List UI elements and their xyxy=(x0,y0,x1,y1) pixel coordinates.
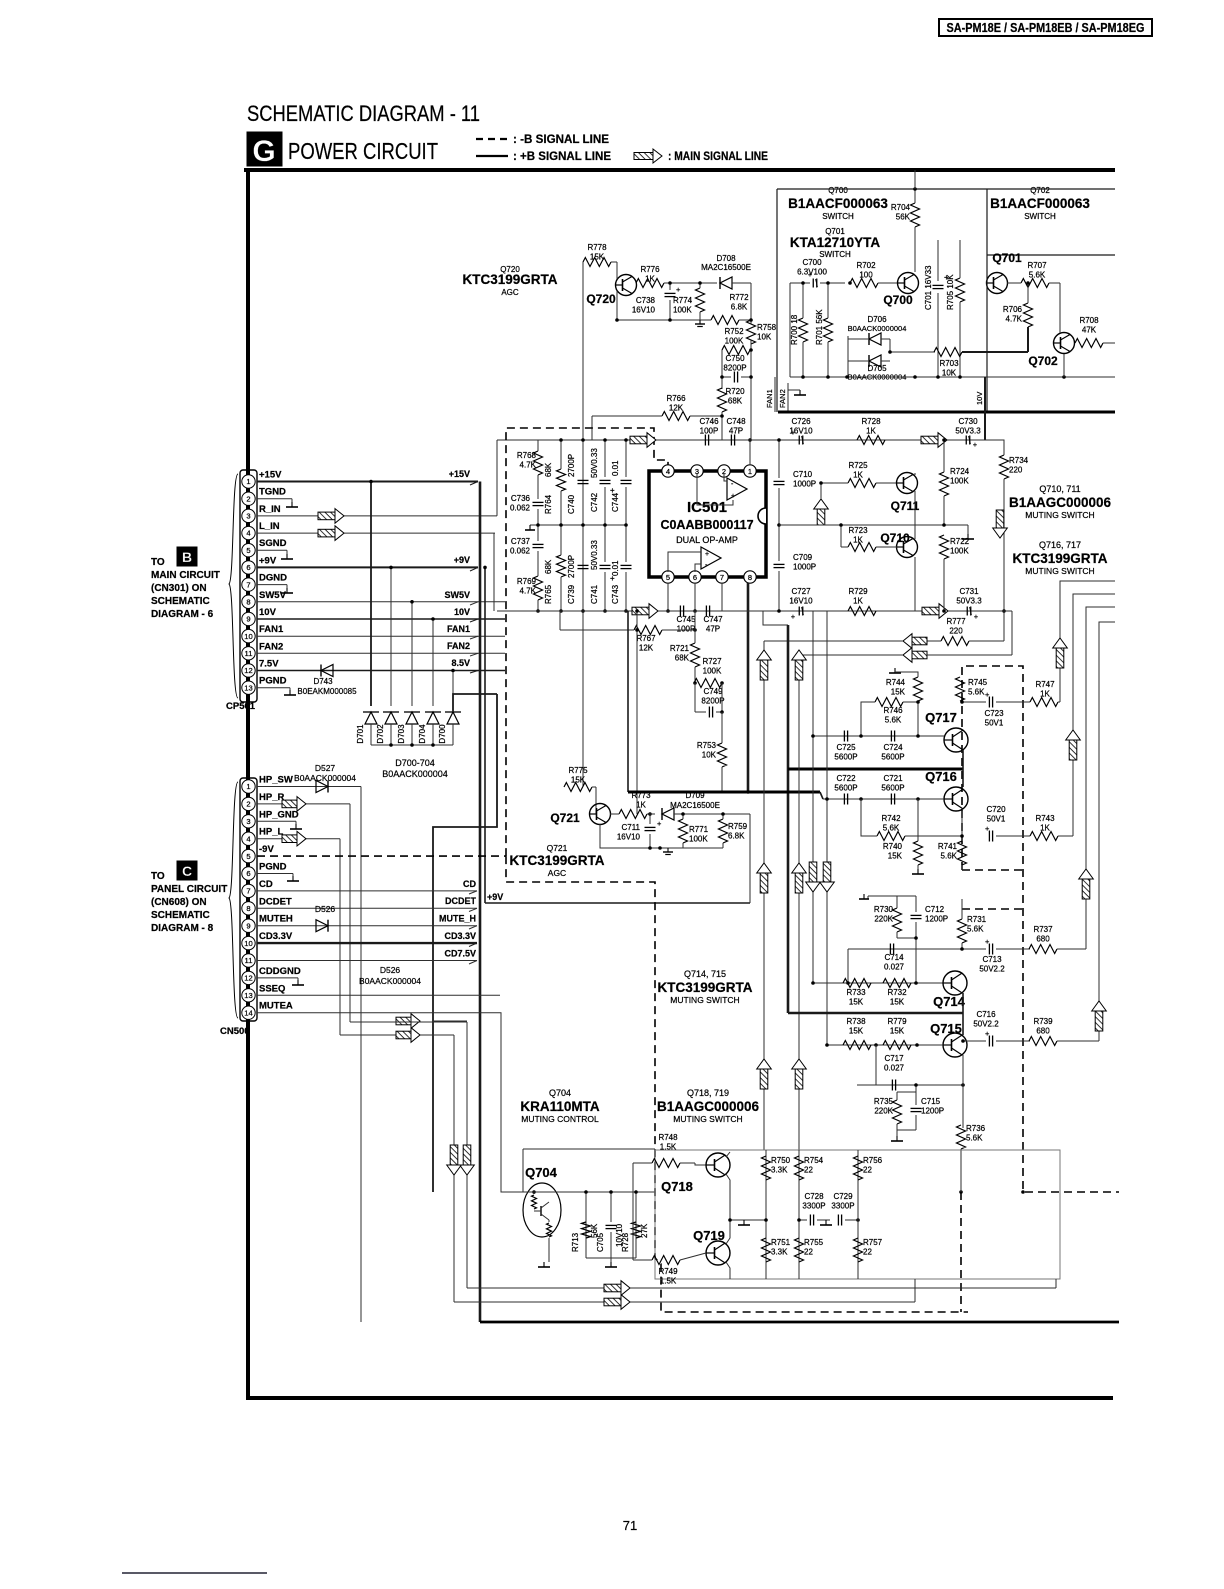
muting switch Q714 Q715 xyxy=(657,894,1099,1192)
down arrow on x=827 xyxy=(823,862,831,882)
svg-text:Q702: Q702 xyxy=(1028,354,1058,368)
transistor Q700 xyxy=(898,273,919,294)
IC501 pin 2 xyxy=(718,465,730,477)
svg-text:D702: D702 xyxy=(376,724,385,744)
svg-text:C721: C721 xyxy=(883,774,903,783)
Q715 collector xyxy=(962,1013,964,1035)
connector CN500 xyxy=(220,775,301,1038)
svg-text:FAN2: FAN2 xyxy=(259,641,283,652)
svg-text:Q710: Q710 xyxy=(880,531,910,545)
svg-text:B0AACK000004: B0AACK000004 xyxy=(382,769,448,779)
svg-text:R732: R732 xyxy=(887,988,907,997)
svg-text:11: 11 xyxy=(245,649,253,658)
svg-text:C744: C744 xyxy=(611,492,620,512)
wire CDDGND to ground xyxy=(257,977,298,979)
IC501 pin 7 xyxy=(716,571,728,583)
svg-text:1: 1 xyxy=(246,477,250,486)
wire DGND to ground xyxy=(257,584,287,586)
svg-text:+9V: +9V xyxy=(454,555,470,565)
svg-text:SCHEMATIC DIAGRAM - 11: SCHEMATIC DIAGRAM - 11 xyxy=(247,101,480,126)
svg-text:Q721: Q721 xyxy=(547,843,568,853)
svg-text:R752: R752 xyxy=(724,327,744,336)
transistor Q710 xyxy=(897,537,918,558)
up arrow on exit 2 xyxy=(1069,740,1077,760)
svg-text:+9V: +9V xyxy=(259,555,277,566)
svg-text:C745: C745 xyxy=(676,615,696,624)
svg-text:: -B SIGNAL LINE: : -B SIGNAL LINE xyxy=(513,134,609,146)
svg-text:1200P: 1200P xyxy=(925,915,948,924)
svg-text:R744: R744 xyxy=(886,678,906,687)
svg-text:SCHEMATIC: SCHEMATIC xyxy=(151,910,210,921)
svg-text:C713: C713 xyxy=(982,955,1002,964)
svg-text:10V: 10V xyxy=(259,607,277,618)
svg-text:SWITCH: SWITCH xyxy=(822,212,854,221)
svg-text:R736: R736 xyxy=(966,1124,986,1133)
muting section Q710 Q711 xyxy=(764,417,1112,662)
+9V bus vertical xyxy=(484,567,486,903)
svg-text:3.3K: 3.3K xyxy=(771,1248,788,1257)
HP wire elbow 2 xyxy=(340,1034,454,1036)
Q717 base wire with C725 C724 xyxy=(813,735,944,737)
svg-text:R751: R751 xyxy=(771,1238,791,1247)
input filter bank xyxy=(494,438,649,613)
legend main signal line arrow xyxy=(634,153,653,160)
svg-text:R748: R748 xyxy=(658,1133,678,1142)
svg-text:KTC3199GRTA: KTC3199GRTA xyxy=(462,272,557,287)
svg-text:6: 6 xyxy=(246,563,250,572)
svg-text:+9V: +9V xyxy=(487,892,503,902)
Q704 emitter ground xyxy=(548,1238,550,1262)
capacitor C717 0.027 xyxy=(857,1084,962,1086)
svg-text:1K: 1K xyxy=(853,471,863,480)
signal bus x=799 xyxy=(798,655,800,1150)
svg-text:50V3.3: 50V3.3 xyxy=(956,597,982,606)
svg-text:DUAL OP-AMP: DUAL OP-AMP xyxy=(676,535,738,545)
svg-text:R765: R765 xyxy=(544,584,553,604)
svg-text:5: 5 xyxy=(246,852,250,861)
bus x=827 to Q716 base xyxy=(826,611,828,1045)
CP501 pin 9 10V xyxy=(242,612,255,625)
diode bank anode join wire xyxy=(371,744,453,746)
svg-text:Q717: Q717 xyxy=(925,710,957,725)
svg-text:12K: 12K xyxy=(639,644,654,653)
svg-text:C716: C716 xyxy=(976,1010,996,1019)
svg-text:100P: 100P xyxy=(700,427,719,436)
svg-text:AGC: AGC xyxy=(548,868,566,878)
arrow on wire 1 xyxy=(396,1017,411,1025)
svg-text:R702: R702 xyxy=(856,261,876,270)
svg-text:15K: 15K xyxy=(571,776,586,785)
svg-text:R757: R757 xyxy=(863,1238,883,1247)
svg-text:47K: 47K xyxy=(1082,326,1097,335)
ground HP_GND xyxy=(295,824,297,829)
svg-text:1200P: 1200P xyxy=(921,1107,944,1116)
op-amp A triangle xyxy=(727,478,747,500)
schematic frame border xyxy=(244,168,1115,172)
svg-text:0.01: 0.01 xyxy=(611,560,620,576)
resistor R749 1.5K xyxy=(652,1256,680,1265)
wire HP_L with signal arrow xyxy=(257,838,340,840)
transistor Q720 xyxy=(616,275,637,296)
svg-text:HP_L: HP_L xyxy=(259,827,283,838)
svg-text:Q700: Q700 xyxy=(828,186,848,195)
svg-text:15K: 15K xyxy=(888,852,903,861)
svg-text:8: 8 xyxy=(748,573,752,582)
wire MUTEH with diode D526 xyxy=(257,925,477,927)
svg-text:71: 71 xyxy=(623,1518,637,1533)
svg-text:220: 220 xyxy=(949,627,963,636)
svg-text:R741: R741 xyxy=(938,842,958,851)
svg-text:1: 1 xyxy=(748,467,752,476)
L_IN entry dropper xyxy=(493,533,495,611)
svg-text:C714: C714 xyxy=(884,953,904,962)
svg-text:R723: R723 xyxy=(848,526,868,535)
legend +B signal line xyxy=(476,155,508,157)
svg-text:1.5K: 1.5K xyxy=(660,1277,677,1286)
svg-text:DCDET: DCDET xyxy=(259,896,292,907)
muting control Q704 xyxy=(520,1088,759,1267)
CP501 pin 12 7.5V xyxy=(242,664,255,677)
svg-text:5.6K: 5.6K xyxy=(885,716,902,725)
CP501 pin 13 PGND xyxy=(242,681,255,694)
svg-text:C741: C741 xyxy=(590,584,599,604)
svg-text:2700P: 2700P xyxy=(567,555,576,578)
Q718 emitter down xyxy=(726,1174,730,1220)
svg-text:1K: 1K xyxy=(866,427,876,436)
resistor R755 22 xyxy=(795,1238,804,1262)
svg-text:50V1: 50V1 xyxy=(985,719,1004,728)
mid rail xyxy=(530,524,626,526)
svg-text:R771: R771 xyxy=(689,825,709,834)
IC501 pin 6 xyxy=(689,571,701,583)
svg-text:100K: 100K xyxy=(673,306,692,315)
svg-text:R728: R728 xyxy=(621,1232,630,1252)
svg-text:+: + xyxy=(985,824,990,833)
svg-text:12: 12 xyxy=(244,666,252,675)
diode D527 xyxy=(316,781,328,793)
transistor Q718 xyxy=(706,1153,730,1177)
digital transistor Q704 xyxy=(523,1183,561,1237)
svg-text:5600P: 5600P xyxy=(834,784,857,793)
wire -9V dashed (-B line) xyxy=(257,855,506,857)
svg-text:680: 680 xyxy=(1036,935,1050,944)
svg-text:R766: R766 xyxy=(666,394,686,403)
svg-text:22: 22 xyxy=(804,1248,813,1257)
wire PGND to ground xyxy=(257,687,290,689)
svg-text:B0AACK0000004: B0AACK0000004 xyxy=(848,324,907,333)
svg-text:R746: R746 xyxy=(883,706,903,715)
svg-text:56K: 56K xyxy=(896,213,911,222)
svg-text:R713: R713 xyxy=(571,1232,580,1252)
svg-text:+: + xyxy=(973,440,978,449)
svg-text:PGND: PGND xyxy=(259,676,287,687)
svg-text:R753: R753 xyxy=(697,741,717,750)
svg-text:R700 18: R700 18 xyxy=(790,314,799,345)
long bottom wire 1 xyxy=(467,1287,1056,1289)
svg-text:C738: C738 xyxy=(636,296,656,305)
svg-text:7.5V: 7.5V xyxy=(259,658,279,669)
svg-text:13: 13 xyxy=(244,683,252,692)
svg-text:12: 12 xyxy=(244,974,252,983)
svg-text:Q701: Q701 xyxy=(992,251,1022,265)
ground on emitter rail xyxy=(667,848,669,852)
svg-text:4: 4 xyxy=(666,467,670,476)
svg-text:6: 6 xyxy=(246,869,250,878)
svg-text:6.8K: 6.8K xyxy=(731,303,748,312)
long bottom wire 2 xyxy=(454,1301,915,1303)
svg-text:10K: 10K xyxy=(757,333,772,342)
wire +9V xyxy=(257,566,478,568)
svg-text:MUTING SWITCH: MUTING SWITCH xyxy=(670,995,739,1005)
svg-text:8.5V: 8.5V xyxy=(451,658,470,668)
svg-text:B1AACF000063: B1AACF000063 xyxy=(788,196,888,211)
resistor R732 15K xyxy=(883,979,911,988)
wire FAN1 xyxy=(257,635,505,637)
svg-text:R745: R745 xyxy=(968,678,988,687)
svg-text:R747: R747 xyxy=(1035,680,1055,689)
svg-text:R735: R735 xyxy=(874,1097,894,1106)
transistor Q716 xyxy=(944,787,968,811)
exit line 1 to R747 xyxy=(1060,581,1115,702)
svg-text:1K: 1K xyxy=(636,801,646,810)
resistor R757 22 xyxy=(854,1238,863,1262)
svg-text:+: + xyxy=(657,819,662,828)
svg-text:1: 1 xyxy=(246,782,250,791)
svg-text:MUTING SWITCH: MUTING SWITCH xyxy=(673,1114,742,1124)
transistor Q702 xyxy=(1054,333,1075,354)
resistor R756 22 xyxy=(857,1150,859,1279)
AGC feedback vertical xyxy=(636,611,638,814)
CN500 pin 8 DCDET xyxy=(242,902,255,915)
svg-text:SSEQ: SSEQ xyxy=(259,983,285,994)
svg-text:B0AACK000004: B0AACK000004 xyxy=(359,976,421,986)
resistor R754 22 xyxy=(798,1150,800,1279)
svg-text:KTA12710YTA: KTA12710YTA xyxy=(790,235,881,250)
Q704 internal resistor 2 xyxy=(547,1223,552,1237)
arrow on y=611 xyxy=(922,607,939,615)
svg-text:G: G xyxy=(252,135,275,168)
svg-text:R730: R730 xyxy=(874,905,894,914)
svg-text:C715: C715 xyxy=(921,1097,941,1106)
svg-text:R706: R706 xyxy=(1003,305,1023,314)
Q715 base wire R738 R779 xyxy=(827,1044,943,1046)
svg-text:SGND: SGND xyxy=(259,538,287,549)
svg-text:680: 680 xyxy=(1036,1027,1050,1036)
svg-text:100K: 100K xyxy=(725,337,744,346)
svg-text:5.6K: 5.6K xyxy=(968,688,985,697)
svg-text:B1AACF000063: B1AACF000063 xyxy=(990,196,1090,211)
CP501 pin 3 R_IN xyxy=(242,509,255,522)
diode bank D701 D702 D703 D704 D700 xyxy=(356,694,497,1192)
svg-text:MUTEH: MUTEH xyxy=(259,914,293,925)
svg-text:+15V: +15V xyxy=(259,470,282,481)
Q720 emitter rail xyxy=(616,291,618,320)
ground CDDGND xyxy=(297,980,299,985)
CN500 pin 3 HP_GND xyxy=(242,815,255,828)
svg-text:R742: R742 xyxy=(881,814,901,823)
svg-text:DIAGRAM - 8: DIAGRAM - 8 xyxy=(151,923,214,934)
svg-text:D701: D701 xyxy=(356,724,365,744)
svg-text:9: 9 xyxy=(246,615,250,624)
diode D702 xyxy=(385,712,397,724)
svg-text:D706: D706 xyxy=(867,315,887,324)
svg-text:R707: R707 xyxy=(1027,261,1047,270)
svg-text:100K: 100K xyxy=(703,667,722,676)
svg-text:SWITCH: SWITCH xyxy=(819,250,851,259)
CN500 pin 9 MUTEH xyxy=(242,919,255,932)
svg-text:10: 10 xyxy=(244,632,252,641)
svg-text:PGND: PGND xyxy=(259,862,287,873)
svg-text:8: 8 xyxy=(246,597,250,606)
svg-text:Q720: Q720 xyxy=(586,292,616,306)
FAN1 line xyxy=(774,377,776,412)
wire CD7.5V xyxy=(257,960,477,962)
svg-text:9: 9 xyxy=(246,921,250,930)
muting switch Q718 Q719 xyxy=(633,1133,1060,1286)
svg-text:B1AAGC000006: B1AAGC000006 xyxy=(1009,495,1112,510)
-B dashed line from -9V to op-amp xyxy=(506,428,668,856)
IC501 pin 4 xyxy=(662,465,674,477)
op-amp IC501 C0AABB000117 xyxy=(649,465,766,583)
svg-text:10: 10 xyxy=(244,939,252,948)
svg-text:HP_R: HP_R xyxy=(259,792,284,803)
svg-text:C711: C711 xyxy=(621,823,640,832)
up arrow on exit 4 xyxy=(1095,1011,1103,1031)
svg-text:2: 2 xyxy=(246,800,250,809)
ground below R774 xyxy=(699,320,701,324)
svg-text:C710: C710 xyxy=(793,470,813,479)
resistor R750 3.3K xyxy=(765,1150,767,1279)
svg-text:R727: R727 xyxy=(702,657,722,666)
svg-text:B: B xyxy=(182,549,192,565)
CN500 pin 1 HP_SW xyxy=(242,780,255,793)
thick signal path from pin8 xyxy=(763,611,788,625)
arrow on y=440 right xyxy=(921,436,938,444)
footer rule xyxy=(122,1572,267,1574)
svg-text:8200P: 8200P xyxy=(701,697,724,706)
svg-text:MAIN CIRCUIT: MAIN CIRCUIT xyxy=(151,570,220,581)
transistor Q715 xyxy=(943,1033,967,1057)
R778 left vertical down to R775 xyxy=(582,262,584,787)
HP wire elbow 1 xyxy=(433,1020,467,1022)
left arrow second xyxy=(912,651,927,659)
svg-text:Q718: Q718 xyxy=(661,1179,693,1194)
svg-text:Q714, 715: Q714, 715 xyxy=(684,969,726,979)
svg-text:D704: D704 xyxy=(418,724,427,744)
svg-text:R728: R728 xyxy=(861,417,881,426)
Q715 emitter to R736 xyxy=(962,1055,964,1128)
AGC block Q720 xyxy=(462,243,776,787)
svg-text:1K: 1K xyxy=(645,275,655,284)
legend -B signal line xyxy=(476,138,508,140)
section letter G box xyxy=(247,132,282,166)
svg-text:R734: R734 xyxy=(1009,456,1029,465)
svg-text:C739: C739 xyxy=(567,584,576,604)
svg-text:50V0.33: 50V0.33 xyxy=(590,540,599,570)
svg-text:R773: R773 xyxy=(631,791,651,800)
svg-text:47P: 47P xyxy=(706,625,720,634)
Q719 emitter down xyxy=(726,1262,730,1279)
svg-text:3: 3 xyxy=(246,512,250,521)
ground FAN2 xyxy=(799,390,801,395)
svg-text:Q718, 719: Q718, 719 xyxy=(687,1088,729,1098)
Q714 base wire R733 R732 xyxy=(813,982,943,984)
svg-text:68K: 68K xyxy=(675,654,690,663)
svg-text:FAN1: FAN1 xyxy=(765,389,774,408)
svg-text:3300P: 3300P xyxy=(802,1202,825,1211)
svg-text:C727: C727 xyxy=(791,587,811,596)
svg-text:SWITCH: SWITCH xyxy=(1024,212,1056,221)
svg-text:PANEL CIRCUIT: PANEL CIRCUIT xyxy=(151,884,227,895)
brace to CP501 xyxy=(229,474,238,698)
svg-text:C746: C746 xyxy=(699,417,719,426)
resistor R779 15K xyxy=(883,1041,911,1050)
arrow on wire 2 xyxy=(396,1031,411,1039)
transistor Q714 xyxy=(943,971,967,995)
svg-text:68K: 68K xyxy=(728,397,743,406)
exit line 2 to R743 xyxy=(1073,594,1115,836)
resistor R713 56K rotated xyxy=(585,1192,587,1258)
bottom rail of switch block xyxy=(790,376,1115,378)
svg-text:KTC3199GRTA: KTC3199GRTA xyxy=(657,980,752,995)
svg-text:TO: TO xyxy=(151,557,165,568)
arrow bottom wire 1 xyxy=(604,1284,621,1292)
10V branch to D704 xyxy=(432,619,434,706)
ground below R740 xyxy=(917,869,919,874)
svg-text:15K: 15K xyxy=(890,998,905,1007)
svg-text:R767: R767 xyxy=(636,634,656,643)
svg-text:MUTE_H: MUTE_H xyxy=(439,914,476,924)
svg-text:8200P: 8200P xyxy=(723,364,746,373)
svg-text:+: + xyxy=(985,690,990,699)
op-amp B triangle xyxy=(701,547,721,569)
svg-text:SW5V: SW5V xyxy=(444,590,470,600)
svg-text:R733: R733 xyxy=(846,988,866,997)
HP_L vertical xyxy=(339,839,341,1035)
Q717 emitter down xyxy=(962,750,964,787)
svg-text:C722: C722 xyxy=(836,774,856,783)
+15V branch to diode bank xyxy=(370,482,372,707)
svg-text:+: + xyxy=(791,428,796,437)
svg-text:CDDGND: CDDGND xyxy=(259,966,301,977)
diode D705 B0AACK0000004 xyxy=(869,355,881,367)
wire CD xyxy=(257,890,477,892)
svg-text:+: + xyxy=(791,612,796,621)
svg-text:50V2.2: 50V2.2 xyxy=(973,1020,999,1029)
svg-text:MUTEA: MUTEA xyxy=(259,1001,293,1012)
label TO PANEL CIRCUIT (CN608) xyxy=(151,861,227,934)
svg-text:R708: R708 xyxy=(1079,316,1099,325)
svg-text:(CN301) ON: (CN301) ON xyxy=(151,583,207,594)
bottom rail Q704 block xyxy=(586,1257,636,1259)
feedback ladder xyxy=(560,611,727,792)
top rail y=440 xyxy=(497,439,649,441)
svg-text:R_IN: R_IN xyxy=(259,504,281,515)
svg-text:POWER CIRCUIT: POWER CIRCUIT xyxy=(288,138,438,164)
CP501 pin 4 L_IN xyxy=(242,526,255,539)
svg-text:C726: C726 xyxy=(791,417,811,426)
-B dashed right section box xyxy=(962,666,1119,1192)
svg-text:4.7K: 4.7K xyxy=(1006,315,1023,324)
wire to C714 xyxy=(848,948,962,950)
-B dashed jumper to R731 xyxy=(962,908,1023,910)
svg-text:R703: R703 xyxy=(939,359,959,368)
wire 7.5V / 8.5V xyxy=(257,670,505,672)
wire DCDET xyxy=(257,907,477,909)
down arrow wire 2 xyxy=(450,1145,458,1165)
ground PGND CN500 xyxy=(292,876,294,881)
mid rail with ground xyxy=(730,1219,766,1221)
